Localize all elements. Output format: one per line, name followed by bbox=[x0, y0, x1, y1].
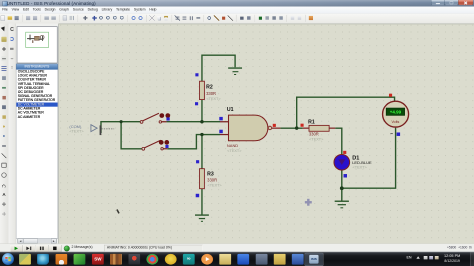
wire column to R2 bbox=[200, 100, 204, 122]
node junction E bbox=[200, 133, 203, 136]
svg-text:330R: 330R bbox=[309, 131, 319, 136]
svg-text:<TEXT>: <TEXT> bbox=[208, 183, 223, 187]
wire branch down to bottom rail bbox=[121, 122, 142, 149]
mouse cursor mark bbox=[117, 210, 119, 214]
wire node to voltmeter plus bbox=[297, 97, 395, 128]
svg-text:+4.99: +4.99 bbox=[390, 110, 402, 115]
wire SW1 to gate input A bbox=[167, 120, 220, 124]
ground middle bbox=[195, 215, 209, 221]
toolbar bbox=[0, 14, 474, 24]
pin logic-state indicators bbox=[195, 73, 400, 197]
gate U1 (NAND) bbox=[220, 107, 280, 153]
node junction D bbox=[295, 126, 298, 129]
ground right bbox=[335, 188, 349, 208]
switch SW2 bbox=[142, 140, 169, 150]
resistor R1 bbox=[303, 120, 336, 142]
switch SW1 bbox=[140, 113, 170, 123]
svg-text:<TEXT>: <TEXT> bbox=[309, 138, 324, 142]
node junction C bbox=[200, 120, 203, 123]
svg-text:330R: 330R bbox=[206, 91, 216, 96]
wire R1 to LED anode bbox=[335, 128, 342, 154]
wire gate output to R1 bbox=[280, 126, 302, 130]
svg-text:<TEXT>: <TEXT> bbox=[227, 149, 242, 153]
menu bar bbox=[0, 7, 474, 14]
terminal (COM) bbox=[69, 124, 114, 135]
svg-text:<TEXT>: <TEXT> bbox=[206, 97, 221, 101]
wire R3 bottom to ground bbox=[200, 189, 204, 215]
wire terminal to top rail bbox=[101, 122, 140, 133]
LED D1 (LED-BLUE) bbox=[334, 154, 372, 170]
wire SW2 to gate input B bbox=[167, 135, 220, 149]
wire column to R3 bbox=[200, 135, 204, 169]
ground top bbox=[228, 68, 242, 74]
svg-text:330R: 330R bbox=[207, 177, 217, 182]
svg-text:LED-BLUE: LED-BLUE bbox=[352, 160, 372, 165]
svg-text:R2: R2 bbox=[206, 84, 213, 90]
node junction B bbox=[120, 120, 123, 123]
wire R2 top to ground bbox=[202, 55, 235, 81]
taskbar bbox=[0, 252, 474, 266]
svg-text:<TEXT>: <TEXT> bbox=[69, 130, 84, 134]
svg-text:NAND: NAND bbox=[227, 143, 238, 148]
origin marker cross bbox=[305, 199, 312, 206]
svg-text:U1: U1 bbox=[227, 107, 234, 113]
title bar bbox=[0, 0, 474, 7]
svg-text:R1: R1 bbox=[308, 120, 315, 126]
resistor R3 bbox=[200, 169, 223, 189]
svg-text:<TEXT>: <TEXT> bbox=[353, 166, 368, 170]
svg-text:(COM): (COM) bbox=[69, 124, 82, 129]
node junction F bbox=[340, 186, 344, 190]
voltmeter (Volts) bbox=[383, 101, 409, 134]
resistor R2 bbox=[200, 81, 222, 101]
wire bottom link to voltmeter minus bbox=[342, 128, 396, 189]
status bar bbox=[0, 243, 474, 252]
wire LED cathode down bbox=[340, 170, 344, 188]
svg-text:Volts: Volts bbox=[391, 120, 399, 124]
